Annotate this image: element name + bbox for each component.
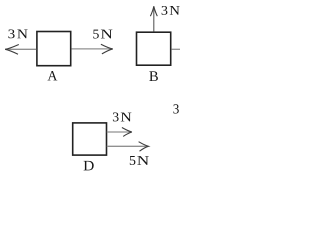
label B [149, 71, 158, 81]
wire: up force shaft of B [153, 7, 155, 32]
label A [47, 71, 57, 80]
arrowhead left of A [5, 45, 19, 55]
arrowhead lower right of D [139, 142, 149, 152]
arrowhead up of B [150, 6, 157, 16]
arrowhead upper right of D [122, 128, 132, 137]
block A [37, 32, 71, 66]
label 3 N (block B up force) [162, 6, 180, 15]
block D [73, 123, 107, 155]
block B [137, 32, 171, 65]
label 3 N (block D upper force) [113, 113, 131, 122]
wire: right stub line of B [171, 48, 180, 50]
label 3 N (block A left force) [8, 30, 27, 39]
wire: right force shaft of A [71, 48, 112, 50]
stray label 3 (cropped neighbour figure) [173, 104, 178, 113]
arrowhead right of A [101, 44, 113, 54]
label 5 N (block D lower force) [130, 156, 149, 165]
label 5 N (block A right force) [93, 30, 112, 39]
label D [84, 161, 94, 170]
wire: lower right force shaft of D [107, 145, 148, 147]
wire: left force shaft of A [5, 48, 36, 50]
wire: upper right force shaft of D [107, 131, 131, 133]
